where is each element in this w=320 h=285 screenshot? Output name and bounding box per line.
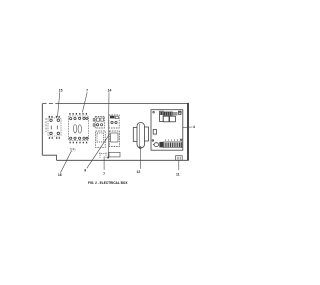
svg-text:12: 12: [137, 170, 141, 174]
svg-text:7(4): 7(4): [70, 147, 76, 151]
svg-text:14: 14: [108, 88, 112, 92]
svg-text:4: 4: [193, 125, 195, 129]
svg-text:FIG. 2 - ELECTRICAL BOX: FIG. 2 - ELECTRICAL BOX: [88, 181, 128, 185]
svg-text:16: 16: [58, 173, 62, 177]
svg-text:9: 9: [84, 169, 86, 173]
svg-text:11: 11: [176, 172, 180, 176]
svg-text:15: 15: [59, 88, 63, 92]
svg-text:7: 7: [103, 172, 105, 176]
svg-text:7: 7: [86, 88, 88, 92]
